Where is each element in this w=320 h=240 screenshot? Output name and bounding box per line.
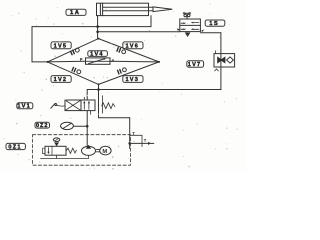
svg-text:M: M: [102, 149, 107, 155]
wire tank line horizontal: [99, 117, 130, 119]
diamond bridge bottom-left diagonal: [48, 62, 99, 85]
check valve 1V6 ball: [122, 50, 126, 54]
valve 1S top cell arrows: [181, 22, 199, 25]
1V7 orifice diamond: [227, 57, 234, 63]
throttle-check valve 1V7 body: [214, 54, 235, 67]
label 1A: [66, 9, 86, 16]
svg-text:1A: 1A: [70, 10, 80, 16]
diamond bridge bottom-right diagonal: [99, 62, 160, 85]
wire right bus vertical: [220, 33, 222, 90]
diamond vertex junctions: [98, 38, 100, 40]
valve 1V1 box parallel arrows: [81, 100, 95, 111]
pressure gauge 0Z2: [61, 122, 74, 129]
motor circle: [100, 146, 111, 155]
junction bottom bus: [97, 88, 100, 91]
pump suction stub: [88, 155, 90, 158]
cylinder 1A rod wedge tip: [153, 7, 172, 12]
relief valve drain: [56, 155, 58, 158]
relief valve divider: [51, 146, 53, 155]
valve 1S roller bar: [183, 12, 190, 14]
check valve 1V2 seat: [72, 67, 76, 71]
power unit 0Z1 dashed enclosure: [33, 135, 131, 166]
tank line external arrow: [130, 142, 154, 144]
1V4 arrow: [89, 59, 106, 64]
1V7 top tick: [215, 51, 217, 54]
wire cylinder cap port down to diamond top: [97, 16, 99, 39]
wire rod-end port drop: [150, 16, 152, 27]
valve 1S roller actuator stem: [186, 17, 188, 19]
svg-text:1S: 1S: [209, 21, 219, 27]
valve 1S outlet arrowhead: [201, 29, 204, 31]
svg-text:0Z2: 0Z2: [36, 123, 48, 129]
wire left bus to diamond left vertex: [32, 61, 48, 63]
check valve 1V3 seat: [118, 70, 122, 74]
cylinder 1A piston: [99, 3, 101, 15]
label 1V2: [51, 76, 71, 83]
pump circle: [82, 146, 96, 155]
svg-text:1V2: 1V2: [54, 77, 68, 83]
wire cylinder rod-end loop + left bus top (horizontal y=26.6): [32, 26, 151, 28]
wire left bus vertical: [31, 27, 33, 62]
wire gauge line: [73, 125, 87, 127]
svg-text:1V4: 1V4: [90, 51, 104, 57]
1V4 internal line: [86, 60, 111, 62]
gauge needle: [63, 123, 72, 128]
wire bottom bus horizontal: [87, 89, 221, 91]
svg-text:1V5: 1V5: [54, 43, 68, 49]
label 1V5: [51, 42, 71, 49]
valve 1V1 box crossed: [65, 100, 81, 111]
label 1V1: [17, 103, 33, 110]
check valve 1V3 ball: [123, 68, 127, 72]
junction bus to 1S: [96, 31, 99, 34]
pump outlet triangle: [86, 145, 91, 149]
check valve 1V5 seat: [71, 50, 75, 55]
svg-text:0Z1: 0Z1: [8, 144, 21, 150]
junction gauge tee: [86, 125, 89, 128]
valve 1S inlet arrowhead: [177, 28, 180, 31]
label 1V7: [187, 61, 204, 68]
valve 1V1 bottom stub: [90, 111, 92, 115]
wire through-line right of 1V1: [101, 96, 103, 114]
svg-text:A: A: [111, 58, 114, 63]
label 1V3: [123, 76, 143, 83]
coupling: [96, 149, 99, 151]
label 1V4: [88, 51, 108, 58]
valve 1S bottom cell arrows: [181, 28, 199, 30]
cylinder 1A rod: [103, 7, 153, 11]
valve 1V1 spring: [102, 103, 115, 109]
diamond bridge top-right diagonal: [99, 39, 160, 62]
check valve 1V6 seat: [117, 48, 121, 52]
valve 1S divider: [180, 24, 201, 26]
label 0Z1: [6, 143, 25, 150]
check valve 1V2 ball: [77, 70, 81, 74]
junction cap-port / rod loop: [96, 25, 99, 28]
label 0Z2: [35, 122, 50, 129]
wire diamond bottom vertex down: [98, 84, 100, 117]
cylinder 1A piston second line: [102, 3, 104, 15]
valve 1V1 lever: [51, 103, 55, 108]
svg-text:1V7: 1V7: [188, 62, 202, 68]
valve 1S exhaust triangle: [185, 33, 190, 37]
relief valve pilot bracket: [43, 148, 45, 153]
wire tank line vertical: [129, 118, 131, 149]
valve 1S roller circles: [184, 14, 187, 17]
internal tank line: [41, 157, 89, 159]
wire 1S outlet to right bus: [200, 32, 221, 34]
relief valve internal arrow: [48, 148, 50, 153]
relief valve body: [45, 146, 66, 155]
wire bus drop to valve 1V1: [86, 90, 88, 101]
diamond bridge top-left diagonal: [48, 39, 99, 62]
wire bus to valve 1S: [98, 31, 180, 33]
label 1S: [205, 20, 225, 27]
diamond center line right segment: [110, 60, 159, 63]
svg-text:P: P: [80, 57, 83, 62]
diamond center line left segment: [48, 60, 86, 63]
tank return step line: [130, 135, 142, 146]
relief valve spring: [66, 148, 76, 153]
svg-text:1V3: 1V3: [125, 77, 139, 83]
relief valve triangle: [54, 142, 59, 146]
flow control valve 1V4 body: [86, 58, 111, 64]
check valve 1V5 ball: [75, 48, 79, 52]
valve 1V1 top stub arrow: [83, 97, 85, 100]
junction tank arrow line: [128, 142, 131, 145]
svg-text:T: T: [144, 138, 147, 143]
cylinder 1A barrel: [97, 3, 149, 15]
1V7 bottom tick: [215, 69, 219, 71]
relief valve mini gauge: [53, 138, 59, 142]
wire P-line valve to pump: [86, 111, 88, 147]
svg-text:1V1: 1V1: [17, 104, 31, 110]
label 1V6: [123, 42, 143, 49]
svg-text:1V6: 1V6: [125, 43, 139, 49]
scan noise speckles (decorative): [3, 3, 237, 169]
valve 1S body: [180, 19, 201, 32]
1V7 check valve butterfly: [217, 56, 222, 63]
